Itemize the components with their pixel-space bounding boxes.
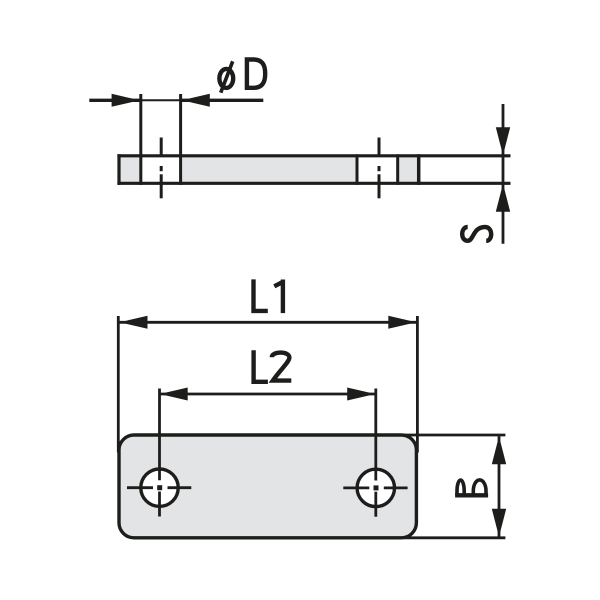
B dimension line [498, 436, 501, 537]
plan view: left hole [141, 469, 178, 506]
centerline of right hole (side view, dash-dot) [378, 138, 381, 199]
label øD: diameter symbol ø [219, 61, 233, 92]
L1 left extension line [117, 316, 120, 453]
L1 dimension line [120, 321, 417, 324]
L2 dimension line [160, 393, 376, 396]
side view: left end edge [117, 154, 120, 185]
øD dimension: line between extension lines [141, 99, 181, 101]
B top arrowhead (points up) [492, 436, 506, 464]
L2 left arrowhead (points left) [160, 388, 188, 401]
B top extension line [405, 434, 505, 437]
label L1: digit 1 [274, 280, 283, 314]
side view: plate body (sectioned bar, gray) [117, 154, 418, 185]
øD dimension: right arrowhead (points left) [182, 94, 210, 107]
S dimension: top arrowhead (points down) [496, 127, 510, 155]
label L1: letter L [254, 279, 268, 311]
plan view: right hole [357, 469, 394, 506]
L1 right arrowhead (points right) [388, 316, 416, 329]
S dimension: bottom arrowhead (points up) [496, 184, 510, 212]
øD dimension: right leader line [182, 99, 263, 102]
centerline of left hole (side view, dash-dot) [160, 138, 163, 199]
side view: right end edge [417, 154, 421, 185]
S dimension line [502, 104, 505, 244]
L1 right extension line [416, 316, 419, 453]
B bottom extension line [405, 536, 505, 539]
right hole left edge (side view) [356, 154, 359, 185]
label L2: letter L [254, 350, 268, 382]
right hole horizontal centerline (dash-dot) [343, 486, 407, 489]
left hole left edge / øD left extension line [139, 94, 142, 185]
left hole center dot [157, 485, 162, 490]
B bottom arrowhead (points down) [492, 509, 506, 537]
right hole center dot [374, 485, 379, 490]
L2 right arrowhead (points right) [347, 388, 375, 401]
label L2: digit 2 [272, 353, 292, 381]
øD dimension: left arrowhead (points right) [112, 94, 140, 107]
left hole vertical centerline / L2 left extension line [158, 389, 161, 517]
label øD: letter D [247, 60, 265, 88]
L1 left arrowhead (points left) [120, 316, 148, 329]
label B (rotated 90° CCW) [455, 480, 488, 495]
right hole right edge (side view) [396, 154, 399, 185]
label S (rotated 90° CCW) [462, 227, 491, 241]
plan view: plate outline (rounded rect) [119, 435, 416, 538]
left hole horizontal centerline (dash-dot) [127, 486, 191, 489]
side view: right hole bore (white) [359, 154, 397, 185]
left hole right edge / øD right extension line [179, 94, 182, 185]
side view: top edge with S extension line [117, 154, 510, 157]
right hole vertical centerline / L2 right extension line [374, 389, 377, 517]
øD dimension: left leader line [89, 99, 139, 102]
side view: left hole bore (white) [142, 154, 179, 185]
side view: bottom edge with S extension line [117, 182, 510, 185]
